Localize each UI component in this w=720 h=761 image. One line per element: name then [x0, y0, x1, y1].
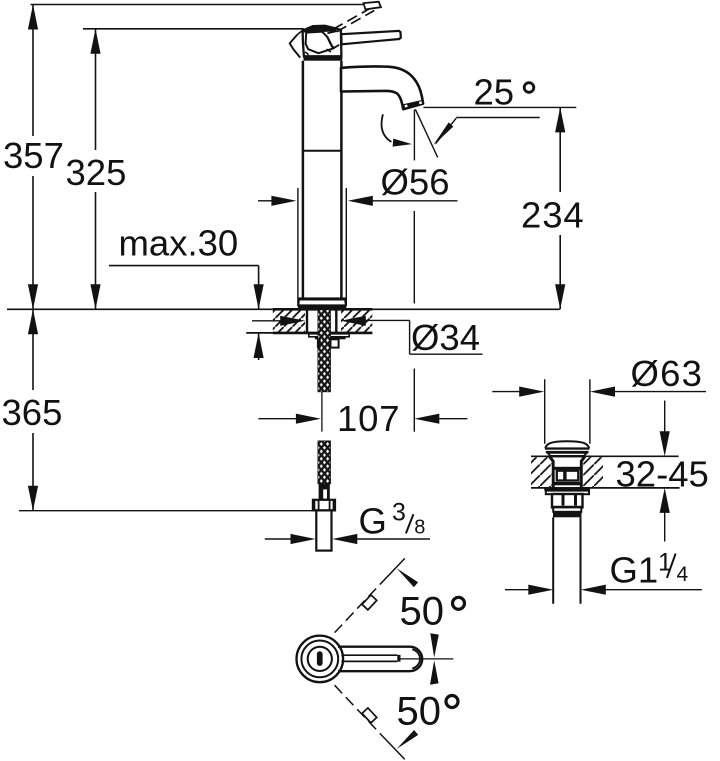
svg-text:325: 325 — [66, 152, 127, 193]
spout outlet extension line — [413, 211, 415, 304]
svg-text:Ø63: Ø63 — [631, 353, 704, 394]
svg-text:234: 234 — [521, 195, 585, 236]
25 deg leader arrow — [433, 118, 540, 146]
base collar bar — [298, 297, 346, 300]
mounting nut band — [315, 337, 346, 340]
drain cap dome — [545, 441, 589, 448]
spout — [341, 67, 423, 110]
dim line 107 — [258, 369, 467, 432]
handle rosette inner circle — [308, 647, 332, 671]
deck hatch left — [273, 310, 305, 332]
angle arrows at centerline — [430, 633, 439, 657]
dim arrows G1 1/4 — [505, 585, 702, 595]
svg-text:32-45: 32-45 — [616, 453, 709, 494]
svg-text:max.30: max.30 — [119, 223, 239, 264]
svg-text:4: 4 — [677, 563, 689, 586]
basin hatch right — [583, 457, 603, 487]
valve lower band — [553, 482, 582, 485]
svg-text:Ø56: Ø56 — [381, 162, 450, 203]
valve window — [557, 470, 579, 481]
handle keyhole slot — [317, 651, 323, 666]
handle knob outline — [303, 26, 342, 57]
aerator band — [403, 100, 423, 108]
ref line spout outlet level — [423, 106, 576, 108]
aerator vertical ref line — [413, 110, 415, 161]
countertop deck bottom line — [246, 332, 372, 334]
hose centerline — [321, 392, 323, 432]
raised lever phantom dashes — [333, 9, 369, 30]
countertop deck top line — [7, 308, 560, 310]
lever handle — [341, 31, 401, 44]
svg-text:50: 50 — [397, 690, 442, 734]
knob facet lines — [327, 30, 340, 48]
threaded rod — [318, 310, 331, 392]
ref line faucet top level — [31, 4, 366, 6]
valve upper band — [553, 467, 582, 470]
drain lower collar — [553, 507, 581, 511]
handle top view lever bar — [338, 647, 422, 672]
drain valve neck — [550, 457, 585, 462]
dim arrows G3/8 — [265, 534, 430, 544]
dim line 365 — [28, 309, 38, 511]
svg-text:357: 357 — [3, 135, 64, 176]
handle centerline — [401, 658, 454, 660]
knob facet — [306, 32, 334, 54]
dim arrows dia 56 — [258, 196, 458, 206]
drain flange washer — [544, 488, 590, 490]
25 deg slant line — [415, 109, 437, 157]
upper 50 deg swing line — [335, 558, 419, 632]
base skirt — [298, 301, 346, 306]
knob top black wedge — [302, 26, 337, 33]
body divider line — [303, 150, 342, 152]
raised lever tip — [364, 2, 381, 10]
svg-text:107: 107 — [337, 398, 400, 439]
svg-text:8: 8 — [414, 517, 425, 539]
svg-text:Ø34: Ø34 — [411, 317, 480, 358]
deck hatch right — [341, 310, 372, 332]
basin band top line — [531, 455, 679, 457]
svg-text:3: 3 — [392, 499, 406, 527]
dim line 234 — [555, 107, 565, 309]
base sleeve lines — [298, 188, 346, 306]
base foot bar — [298, 305, 346, 308]
ref line lever level — [83, 28, 304, 30]
label G1 1/4 — [610, 548, 689, 590]
svg-text:25: 25 — [474, 72, 515, 113]
drain cap underside — [547, 453, 587, 457]
handle rosette middle circle — [301, 641, 338, 678]
dim line 357 — [28, 5, 38, 310]
dim arrows hole dia 34 — [252, 316, 483, 355]
svg-text:G1: G1 — [610, 550, 659, 591]
label G 3/8 — [359, 499, 426, 542]
lower 50 deg swing line — [335, 685, 419, 759]
dim line 325 — [90, 29, 100, 309]
leader max.30 — [109, 266, 264, 360]
lever bar cap arc — [412, 649, 420, 668]
svg-text:365: 365 — [2, 392, 63, 433]
drain tailpipe — [553, 517, 580, 604]
drain cap rim — [545, 447, 589, 449]
basin hatch left — [531, 457, 552, 487]
hose pipe G3/8 — [316, 510, 331, 550]
knob left flap — [290, 35, 301, 58]
nut right tab — [331, 339, 339, 347]
basin band bottom line — [531, 487, 680, 489]
nut left block — [317, 339, 321, 348]
ref line hose end level — [19, 510, 313, 512]
knob base black bar — [304, 56, 343, 60]
swivel arc arrow — [382, 114, 412, 146]
drain valve body — [553, 461, 581, 488]
faucet shank through deck — [307, 309, 336, 334]
drain backnut — [552, 494, 583, 507]
flexible hose braid — [318, 441, 331, 484]
mounting washer — [309, 334, 349, 337]
svg-text:G: G — [359, 501, 387, 542]
dim arrows dia 63 — [492, 379, 706, 444]
lever bar inner slot — [341, 655, 400, 662]
faucet body column — [303, 61, 342, 299]
hose nut — [313, 500, 335, 511]
dim 32-45 — [660, 401, 670, 542]
handle rosette outer circle — [297, 636, 344, 683]
hose end connector — [319, 484, 330, 500]
svg-text:50: 50 — [400, 589, 445, 633]
